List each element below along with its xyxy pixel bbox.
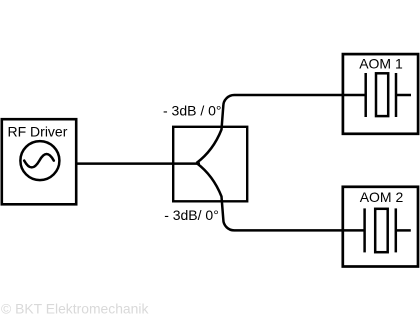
- crystal Y2 body: [375, 209, 388, 252]
- AC source circle: [20, 141, 59, 180]
- crystal Y2 left plate: [363, 208, 366, 252]
- splitter box: [173, 127, 247, 202]
- svg-text:AOM 1: AOM 1: [359, 55, 403, 71]
- splitter upper branch wire to AOM 1: [197, 95, 366, 163]
- crystal Y1 right stub wire: [396, 94, 411, 97]
- svg-text:AOM 2: AOM 2: [360, 189, 404, 205]
- crystal Y1 body: [376, 73, 388, 116]
- crystal Y1 left plate: [364, 73, 367, 117]
- crystal Y2 right stub wire: [396, 229, 411, 232]
- wire RF Driver to splitter input: [75, 162, 200, 165]
- splitter lower branch wire to AOM 2: [197, 163, 365, 230]
- RF Driver box U1: [2, 119, 76, 204]
- svg-text:RF Driver: RF Driver: [8, 124, 68, 140]
- svg-text:© BKT Elektromechanik: © BKT Elektromechanik: [1, 301, 148, 317]
- crystal Y2 right plate: [395, 208, 398, 252]
- svg-text:- 3dB/ 0°: - 3dB/ 0°: [164, 207, 219, 223]
- AOM 2 box: [343, 187, 418, 267]
- AOM 1 box: [343, 54, 418, 134]
- svg-text:- 3dB / 0°: - 3dB / 0°: [163, 103, 222, 119]
- crystal Y1 right plate: [395, 73, 398, 117]
- sine wave: [24, 154, 54, 167]
